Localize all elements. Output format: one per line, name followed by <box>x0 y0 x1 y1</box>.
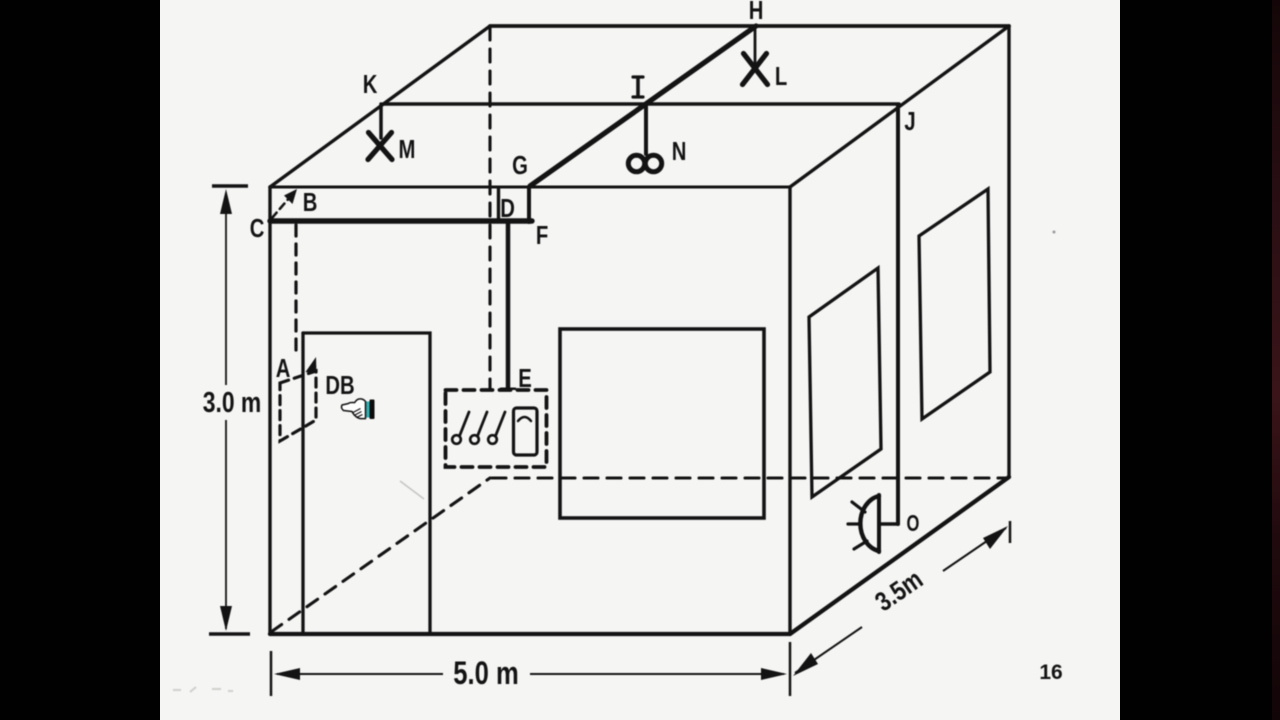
svg-text:H: H <box>749 0 764 25</box>
svg-text:3.0 m: 3.0 m <box>203 385 262 418</box>
svg-text:L: L <box>775 62 787 91</box>
svg-text:K: K <box>363 70 378 99</box>
svg-text:B: B <box>303 188 318 217</box>
svg-text:N: N <box>672 137 687 166</box>
svg-text:O: O <box>907 511 920 536</box>
svg-text:M: M <box>399 135 416 164</box>
svg-text:A: A <box>276 354 291 383</box>
svg-text:F: F <box>536 221 548 250</box>
svg-text:DB: DB <box>325 371 354 400</box>
svg-text:D: D <box>500 194 515 223</box>
svg-text:G: G <box>512 151 528 180</box>
svg-text:5.0 m: 5.0 m <box>453 656 518 691</box>
svg-text:C: C <box>250 214 265 243</box>
svg-text:J: J <box>904 107 915 136</box>
svg-text:16: 16 <box>1039 661 1062 684</box>
svg-text:E: E <box>518 364 532 393</box>
